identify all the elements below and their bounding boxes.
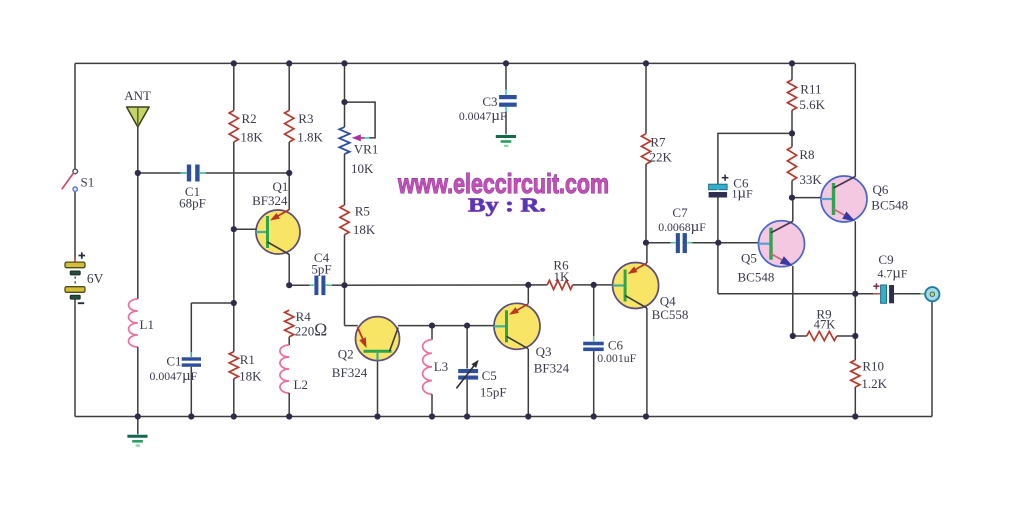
svg-text:BF324: BF324 <box>534 361 570 376</box>
svg-text:R8: R8 <box>799 147 814 162</box>
svg-text:BF324: BF324 <box>252 193 288 208</box>
svg-text:L2: L2 <box>294 377 308 392</box>
svg-text:1.8K: 1.8K <box>297 130 323 145</box>
svg-text:47K: 47K <box>814 318 836 332</box>
svg-text:18K: 18K <box>239 369 262 384</box>
svg-text:R3: R3 <box>298 111 313 126</box>
svg-text:Q3: Q3 <box>536 344 552 359</box>
svg-text:R4: R4 <box>296 309 312 324</box>
svg-text:68pF: 68pF <box>179 196 206 211</box>
svg-text:4.7µF: 4.7µF <box>878 266 908 282</box>
svg-text:R2: R2 <box>242 111 257 126</box>
svg-text:L1: L1 <box>140 317 154 332</box>
svg-text:S1: S1 <box>81 175 95 190</box>
svg-text:22K: 22K <box>650 149 673 164</box>
svg-text:5pF: 5pF <box>311 262 331 277</box>
svg-text:6V: 6V <box>87 271 104 286</box>
svg-text:33K: 33K <box>799 172 822 187</box>
svg-text:C7: C7 <box>672 205 688 220</box>
svg-text:C1: C1 <box>166 354 181 369</box>
svg-text:BF324: BF324 <box>332 365 368 380</box>
svg-text:Q2: Q2 <box>338 347 354 362</box>
svg-text:VR1: VR1 <box>354 142 379 157</box>
svg-text:R7: R7 <box>650 134 666 149</box>
svg-text:By : R.: By : R. <box>468 195 546 217</box>
svg-text:Q5: Q5 <box>741 251 757 266</box>
svg-text:L3: L3 <box>434 359 448 374</box>
svg-text:15pF: 15pF <box>480 385 507 400</box>
svg-text:18K: 18K <box>353 222 376 237</box>
svg-text:1.2K: 1.2K <box>861 376 887 391</box>
svg-text:BC548: BC548 <box>871 198 908 213</box>
svg-text:10K: 10K <box>351 161 374 176</box>
svg-text:Q6: Q6 <box>873 182 889 197</box>
svg-text:1µF: 1µF <box>732 186 754 202</box>
svg-text:0.0068µF: 0.0068µF <box>658 219 706 235</box>
svg-text:5.6K: 5.6K <box>799 97 825 112</box>
svg-text:BC548: BC548 <box>738 270 775 285</box>
svg-text:0.0047µF: 0.0047µF <box>459 108 507 124</box>
svg-text:R1: R1 <box>240 352 255 367</box>
svg-text:R10: R10 <box>862 358 884 373</box>
svg-text:18K: 18K <box>240 130 263 145</box>
svg-text:Q1: Q1 <box>273 179 289 194</box>
svg-text:1K: 1K <box>554 269 571 284</box>
svg-text:BC558: BC558 <box>652 307 689 322</box>
svg-text:C3: C3 <box>482 94 497 109</box>
svg-text:R5: R5 <box>355 204 370 219</box>
svg-text:0.0047µF: 0.0047µF <box>150 368 198 384</box>
svg-text:C5: C5 <box>482 368 497 383</box>
svg-text:0.001uF: 0.001uF <box>597 351 636 365</box>
svg-text:R11: R11 <box>800 81 821 96</box>
svg-text:ANT: ANT <box>124 88 151 103</box>
